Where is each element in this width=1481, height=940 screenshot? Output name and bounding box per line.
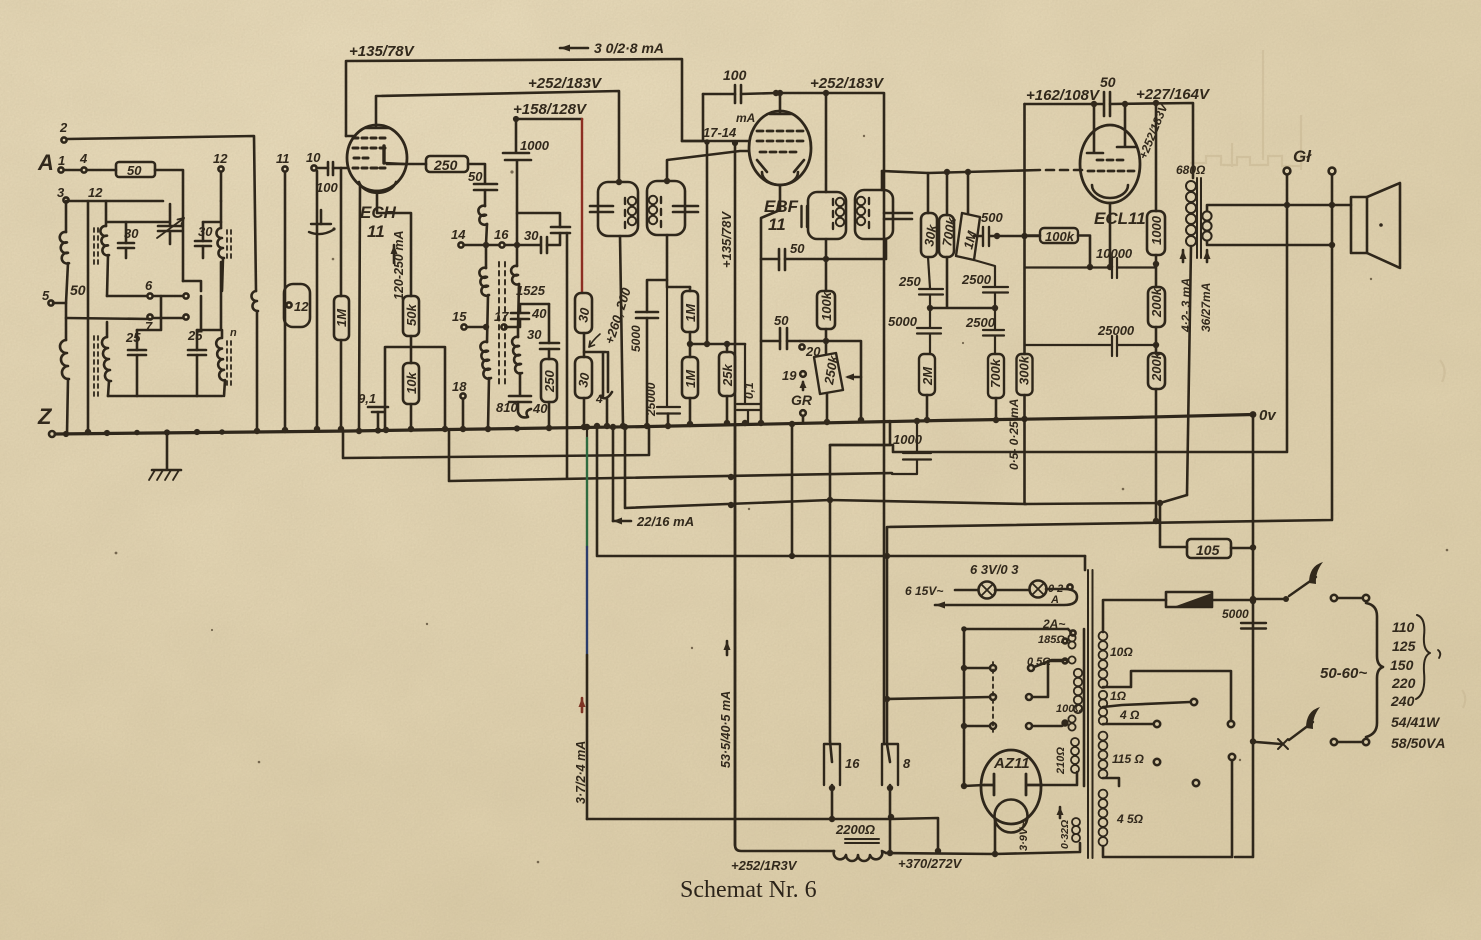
svg-text:+135/78V: +135/78V <box>719 211 734 268</box>
svg-text:14: 14 <box>451 227 466 242</box>
primary winding loops <box>1074 669 1082 677</box>
secondary group 1ohm <box>1099 691 1107 699</box>
svg-text:4 Ω: 4 Ω <box>1119 708 1140 722</box>
wire x613 stub <box>612 427 615 521</box>
wire between 30 boxes <box>583 333 586 357</box>
terminal 11 <box>282 166 287 171</box>
potentiometer 250k <box>825 341 828 353</box>
svg-text:53·5/40·5 mА: 53·5/40·5 mА <box>719 691 733 768</box>
tap B <box>1103 702 1190 707</box>
svg-text:220: 220 <box>1391 675 1416 691</box>
wire to x861 <box>826 341 861 420</box>
AZ11 tube envelope <box>981 750 1041 824</box>
svg-text:Schemat Nr. 6: Schemat Nr. 6 <box>680 877 817 903</box>
svg-text:7: 7 <box>145 319 153 334</box>
cap 1000 on x516 <box>503 119 531 244</box>
wire speaker line top <box>1207 205 1351 211</box>
svg-text:10000: 10000 <box>1096 246 1133 261</box>
mains switch bottom <box>1256 742 1281 744</box>
coupled coil upper <box>100 226 109 255</box>
mains bracket <box>1366 603 1383 737</box>
svg-text:4·2- 3 mА: 4·2- 3 mА <box>1179 278 1193 333</box>
floating contact <box>1154 759 1160 765</box>
svg-text:250: 250 <box>898 274 921 289</box>
svg-text:50: 50 <box>774 313 789 328</box>
svg-text:10k: 10k <box>404 372 419 394</box>
mains switch top <box>1283 596 1289 602</box>
svg-text:AZ11: AZ11 <box>993 755 1030 772</box>
wire tap group4 bottom <box>1103 778 1119 786</box>
svg-text:19: 19 <box>782 368 797 383</box>
svg-text:5000: 5000 <box>888 314 918 329</box>
svg-text:110: 110 <box>1392 619 1415 635</box>
wire terminal a lead <box>1286 175 1289 205</box>
wire row t14 <box>464 244 540 247</box>
terminal 15 <box>461 324 466 329</box>
wire x731 long vertical <box>735 426 834 851</box>
selector wiring <box>887 697 990 699</box>
svg-text:3 0/2·8 mА: 3 0/2·8 mА <box>594 40 664 56</box>
svg-text:30: 30 <box>527 327 542 342</box>
wire from terminal 2 to band coil <box>67 136 256 291</box>
IFT2 primary coil loops <box>836 198 844 206</box>
OT secondary coil <box>1202 211 1211 220</box>
ghost bleed-through marks top right <box>1190 50 1465 708</box>
IFT1 secondary coil dashes <box>660 197 662 227</box>
wire +252 EBF rail <box>780 93 884 744</box>
svg-text:2500: 2500 <box>961 272 992 287</box>
IFT1 primary coil dashes <box>624 198 626 228</box>
svg-text:1000: 1000 <box>893 432 923 447</box>
wire +135 screen feed <box>346 59 749 141</box>
ground symbol <box>152 431 181 470</box>
svg-text:50-60~: 50-60~ <box>1320 665 1367 682</box>
resistor 100k grid stopper <box>1040 228 1078 243</box>
svg-text:+158/128V: +158/128V <box>513 101 588 118</box>
svg-text:+252/183V: +252/183V <box>528 75 603 92</box>
svg-text:4: 4 <box>79 151 88 166</box>
wire cathode bracket <box>385 347 445 430</box>
wire lower coil tails <box>107 322 109 396</box>
wire AVC row y344 <box>690 343 745 346</box>
brace <box>1416 615 1430 699</box>
secondary bottom return <box>1103 760 1232 857</box>
heater winding top bracket <box>964 628 1068 631</box>
antenna coil L1 <box>60 232 69 264</box>
wire x567 drop <box>566 233 569 478</box>
label 4.2-3 mA <box>1182 250 1185 262</box>
ECL top electrodes <box>1087 104 1135 153</box>
resistor 50k <box>403 296 419 336</box>
terminal 12 top <box>218 166 223 171</box>
svg-text:200k: 200k <box>1149 351 1164 382</box>
1M top from IFT1 <box>689 287 692 291</box>
resistor 30 (upper) <box>575 293 592 333</box>
wire terminal b long vertical <box>887 175 1332 556</box>
svg-text:17: 17 <box>494 309 509 324</box>
wire screen into tube <box>346 135 355 138</box>
wire x183 to contacts <box>183 281 201 291</box>
resistor 50 (antenna series) <box>116 162 155 177</box>
wire speaker return <box>830 205 1287 741</box>
svg-text:250: 250 <box>433 157 458 173</box>
svg-text:22/16 mА: 22/16 mА <box>636 514 694 529</box>
svg-text:30: 30 <box>524 228 539 243</box>
AZ11 filament circle <box>995 800 1028 833</box>
svg-text:10Ω: 10Ω <box>1110 645 1133 659</box>
AZ11 left anode lead <box>964 785 984 786</box>
pilot lamp 1 <box>979 582 996 599</box>
svg-text:A: A <box>37 150 54 175</box>
svg-text:115 Ω: 115 Ω <box>1112 752 1144 766</box>
resistor 1000 <box>1155 103 1158 211</box>
label 22/16 mA <box>613 520 631 523</box>
wire top bend from x682 <box>682 94 703 141</box>
wire row y396 <box>108 395 222 398</box>
speaker magnet <box>1351 197 1367 253</box>
svg-text:1M: 1M <box>683 303 698 322</box>
coupled coil lower <box>102 337 111 381</box>
resistor 1M (AVC b) <box>682 357 698 398</box>
voltage selector dashed link <box>992 662 994 732</box>
wire +158 rail <box>516 118 582 121</box>
svg-text:50: 50 <box>1100 74 1116 90</box>
IFT2 primary box <box>808 192 846 239</box>
ECL cathode arc <box>1092 185 1128 198</box>
terminal 17 <box>501 324 506 329</box>
svg-text:1525: 1525 <box>516 283 546 298</box>
svg-text:Gł: Gł <box>1293 147 1312 166</box>
wire coil to bus <box>256 311 259 431</box>
IFT1 primary cap <box>590 206 613 212</box>
resistor 25k <box>719 352 735 396</box>
wire x588 marked line green/blue <box>586 427 588 438</box>
dust specks <box>115 135 1449 864</box>
wire y458 loop <box>343 427 649 458</box>
svg-text:5000: 5000 <box>1222 607 1249 621</box>
main ground bus wire <box>55 415 1253 435</box>
coupled coil core (dashed) lower <box>94 336 98 400</box>
label 36/27 mA <box>1206 250 1209 262</box>
IFT2 secondary coil loops <box>857 197 865 205</box>
label 53.5/40.5 mA <box>726 641 729 655</box>
heater arrow <box>935 602 945 609</box>
resistor 250 (anode) <box>387 163 426 166</box>
IFT2 primary leads <box>825 93 828 259</box>
cap 30 top <box>551 227 570 233</box>
svg-text:6 3V/0 3: 6 3V/0 3 <box>970 562 1019 577</box>
svg-text:9,1: 9,1 <box>358 391 376 406</box>
svg-text:50k: 50k <box>404 304 419 326</box>
wire y478 line <box>449 431 892 481</box>
wire x201 x221 to row396 <box>200 296 203 330</box>
mains contacts bottom <box>1331 739 1337 745</box>
svg-text:+162/108V: +162/108V <box>1026 87 1101 104</box>
terminal 3 <box>63 197 68 202</box>
wire 22/16mA line <box>625 427 1026 508</box>
branch to cap 5000 <box>647 280 667 312</box>
svg-text:5: 5 <box>42 288 50 303</box>
IFT1 secondary bottom wire <box>667 235 690 287</box>
svg-text:11: 11 <box>367 222 385 241</box>
svg-text:50: 50 <box>70 282 86 298</box>
antenna coil L2 <box>60 340 69 379</box>
IFT2 secondary cap <box>884 213 912 219</box>
resistor 30k <box>927 173 930 213</box>
wire terminal 3 junction <box>65 202 68 232</box>
terminal 2 <box>61 137 66 142</box>
svg-text:+370/272V: +370/272V <box>898 856 963 871</box>
svg-text:4 5Ω: 4 5Ω <box>1116 812 1144 826</box>
wire row y330 <box>137 262 221 330</box>
wire +162 rail <box>1025 103 1104 106</box>
resistor 105 <box>1160 504 1187 547</box>
heater wire with lamps <box>935 589 1077 605</box>
wire 30 to bus <box>583 398 586 427</box>
svg-text:17-14: 17-14 <box>703 125 737 140</box>
svg-text:500: 500 <box>981 210 1003 225</box>
IFT1 secondary coil loops <box>649 196 657 204</box>
secondary winding group 10ohm <box>1099 632 1108 641</box>
svg-text:1Ω: 1Ω <box>1110 689 1127 703</box>
AZ11 cathode lead <box>994 820 997 854</box>
wire contacts row <box>66 296 183 319</box>
IFT1 primary bottom wire to bus <box>620 236 623 426</box>
wire vertical x88 <box>66 201 88 432</box>
ECH11 anode bar <box>382 146 385 163</box>
wire x887 drop <box>886 556 889 744</box>
wire 250 to cap50 <box>468 164 485 183</box>
svg-text:ECL11: ECL11 <box>1094 209 1146 228</box>
svg-text:1M: 1M <box>683 369 698 388</box>
secondary tap A jog <box>1103 671 1231 721</box>
ECL11 tube envelope <box>1080 125 1140 203</box>
svg-text:1: 1 <box>58 153 65 168</box>
svg-text:120-250 mА: 120-250 mА <box>392 231 406 301</box>
wire AF line y172 <box>882 170 1040 173</box>
wire row y201 <box>88 200 163 203</box>
wire y445 jog <box>830 421 890 445</box>
svg-text:125: 125 <box>1392 638 1416 654</box>
resistor 200k (b) <box>1148 353 1165 389</box>
wire x106 <box>106 201 108 296</box>
svg-text:11: 11 <box>768 215 786 234</box>
pot wiper arrow <box>848 376 861 379</box>
transformer core <box>1088 570 1093 858</box>
coupled coil core (dashed) upper <box>94 228 98 264</box>
svg-text:150: 150 <box>1390 657 1414 673</box>
hatched resistor <box>1166 592 1212 607</box>
osc coil right winding <box>516 248 519 266</box>
speaker terminal b <box>1329 168 1336 175</box>
svg-text:185Ω: 185Ω <box>1038 634 1065 646</box>
IFT2 primary coil dashes <box>832 199 834 229</box>
svg-text:4: 4 <box>595 392 603 406</box>
IFT1 secondary top to EBF grid <box>667 151 749 181</box>
grid wire to ECH <box>341 167 348 170</box>
terminal 5 <box>48 300 53 305</box>
svg-text:250: 250 <box>542 370 557 393</box>
resistor 1M (grid leak) <box>340 168 343 296</box>
selector contacts right <box>1028 665 1034 671</box>
svg-text:30: 30 <box>198 224 213 239</box>
terminal 1 <box>58 167 63 172</box>
IFT2 secondary coil dashes <box>868 198 870 228</box>
resistor 10k <box>403 363 419 404</box>
cap 40 <box>511 313 529 319</box>
svg-text:25: 25 <box>125 330 141 345</box>
wire top line to core <box>1084 556 1087 570</box>
junction dots on bus and nodes <box>63 116 967 632</box>
OT primary bottom lead <box>1187 246 1191 495</box>
switch contact 7b <box>183 314 188 319</box>
pilot lamp 2 <box>1030 581 1047 598</box>
svg-text:16: 16 <box>494 227 509 242</box>
IFT1 primary coil loops <box>628 197 636 205</box>
resistor 700k <box>946 172 949 215</box>
svg-text:100k: 100k <box>1045 229 1075 244</box>
label 3.7/2.4 mA red <box>581 698 584 712</box>
resistor 200k (a) <box>1148 287 1165 327</box>
svg-text:0·5- 0·25 mА: 0·5- 0·25 mА <box>1007 399 1021 470</box>
secondary group 4ohm <box>1099 708 1107 716</box>
svg-text:100: 100 <box>723 67 747 83</box>
terminal Z <box>49 431 55 437</box>
svg-text:12: 12 <box>213 151 228 166</box>
wire +252 rail to IFT1 <box>376 91 619 182</box>
OT primary coil <box>1186 181 1196 191</box>
svg-text:10: 10 <box>306 150 321 165</box>
switch contact 6 <box>147 293 152 298</box>
AZ11 right anode lead <box>1042 772 1077 785</box>
svg-text:40: 40 <box>531 306 547 321</box>
svg-text:6: 6 <box>145 278 153 293</box>
svg-text:36/27mА: 36/27mА <box>1199 283 1213 332</box>
EBF cathode arc <box>762 172 798 185</box>
svg-text:25k: 25k <box>720 364 735 387</box>
0.32 winding <box>1072 818 1080 826</box>
svg-text:3·7/2·4 mА: 3·7/2·4 mА <box>574 741 588 804</box>
wire +135/78V vertical (long) <box>734 143 737 845</box>
node 0V <box>1250 411 1257 418</box>
svg-text:+135/78V: +135/78V <box>349 43 416 60</box>
trimmer cap on line 10 <box>311 223 331 225</box>
wire y556 line <box>597 426 1085 556</box>
svg-text:2500: 2500 <box>965 315 996 330</box>
svg-text:1000: 1000 <box>520 138 550 153</box>
resistor 2M <box>919 354 935 395</box>
svg-text:+252/1R3V: +252/1R3V <box>731 858 798 873</box>
secondary top tap to hatched resistor <box>1103 600 1166 632</box>
wire x1253 vertical <box>1235 414 1253 857</box>
resistor 250 osc <box>541 359 557 402</box>
arrow up near filament <box>1059 807 1062 818</box>
wire +227 rail to OT <box>1110 103 1193 178</box>
svg-text:40: 40 <box>532 401 548 416</box>
junction 1M <box>689 332 692 357</box>
IFT2 primary cap <box>802 206 808 227</box>
svg-text:200k: 200k <box>1149 287 1164 318</box>
svg-text:2200Ω: 2200Ω <box>835 822 875 837</box>
svg-text:1M: 1M <box>334 308 349 327</box>
ECL grid dashes <box>1088 160 1134 171</box>
wire tube left side down <box>359 186 360 431</box>
svg-text:50: 50 <box>790 241 805 256</box>
capacitor 100 (grid series) <box>328 162 333 175</box>
ECH11 cathode arc <box>359 182 396 193</box>
wire x582 down (red pencil over ink) <box>581 119 583 293</box>
svg-text:700k: 700k <box>988 358 1003 388</box>
svg-text:+227/164V: +227/164V <box>1136 86 1211 103</box>
svg-text:Z: Z <box>37 404 53 429</box>
wire L2 to bus <box>67 379 68 434</box>
wire terminal 4 to resistor <box>87 169 116 172</box>
secondary group 115ohm <box>1099 732 1108 741</box>
contact 20 <box>799 344 804 349</box>
wire cathode down <box>377 191 411 296</box>
wire 700k down <box>930 257 995 308</box>
resistor 700k (lower) <box>988 354 1004 398</box>
svg-text:100k: 100k <box>819 291 834 321</box>
svg-text:100: 100 <box>316 180 338 195</box>
selector contacts left <box>990 665 996 671</box>
wire 50k to 10k <box>410 336 413 363</box>
svg-text:5000: 5000 <box>629 325 643 352</box>
wire speaker line bottom <box>1207 241 1332 245</box>
svg-text:58/50VА: 58/50VА <box>1391 735 1445 751</box>
wire resistor to vertical <box>155 170 183 281</box>
resistor 30 (lower) <box>575 357 592 398</box>
wire top row y222 <box>107 221 221 224</box>
EBF anode angles <box>757 160 804 172</box>
wire x792 drop <box>791 424 794 556</box>
label 120-250 mA with arrow <box>393 245 396 263</box>
EBF top electrode <box>770 93 791 114</box>
IFT1 secondary box <box>647 181 685 235</box>
svg-text:2M: 2M <box>920 366 935 386</box>
wire 10 down to bus <box>316 171 319 429</box>
svg-text:8: 8 <box>903 756 911 771</box>
coupled coil lower right <box>216 338 225 380</box>
IFT2 secondary leads <box>826 171 886 259</box>
svg-text:16: 16 <box>845 756 860 771</box>
svg-text:mА: mА <box>736 111 755 125</box>
ECL cathode lead <box>1109 203 1112 267</box>
IFT1 secondary cap <box>673 206 698 212</box>
wire terminal 5 stub <box>53 302 66 305</box>
resistor 100k (diode load) <box>817 291 835 329</box>
svg-text:15: 15 <box>452 309 467 324</box>
svg-text:0·32Ω: 0·32Ω <box>1059 820 1071 849</box>
svg-text:300k: 300k <box>1017 355 1032 385</box>
svg-text:240: 240 <box>1390 693 1415 709</box>
OT core <box>1197 178 1201 258</box>
switch contact 6b <box>183 293 188 298</box>
wire x1024 long vertical <box>1025 104 1188 504</box>
svg-text:GR: GR <box>791 392 813 408</box>
coil on line 2 <box>251 291 258 311</box>
terminal 10 <box>311 165 316 170</box>
speaker cone <box>1367 183 1400 268</box>
svg-text:25000: 25000 <box>644 382 658 417</box>
trimmer cap with arrow <box>158 226 182 231</box>
terminal 14 <box>458 242 463 247</box>
speaker terminal a <box>1284 168 1291 175</box>
svg-text:18: 18 <box>452 379 467 394</box>
wire x964 selector feed <box>963 629 966 786</box>
IFT2 secondary box <box>855 190 893 239</box>
resistor 1M tilted <box>967 172 970 214</box>
